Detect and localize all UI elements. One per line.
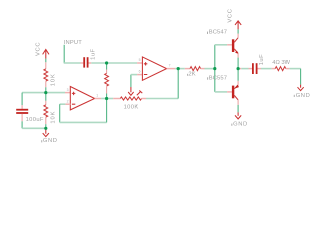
wire R1 to divider node <box>45 87 47 92</box>
node opamp2 output junction <box>177 67 180 70</box>
resistor R2 value 10K <box>50 111 56 124</box>
wire down to GND right <box>300 69 302 85</box>
ground GND right <box>298 85 304 91</box>
svg-text:INPUT: INPUT <box>64 40 82 46</box>
op-amp U1B gain stage <box>142 57 166 80</box>
VCC left arrow <box>43 50 49 59</box>
svg-text:GND: GND <box>233 122 248 128</box>
svg-text:BC547: BC547 <box>209 30 227 36</box>
node opamp1 output junction <box>105 97 108 100</box>
resistor R6 load <box>275 67 286 71</box>
wire bottom rail <box>22 127 46 129</box>
capacitor C3 plates 100uF <box>16 109 28 111</box>
transistor Q1 BC547 <box>206 32 209 34</box>
power VCC left symbol <box>35 42 41 56</box>
wire output node to C2 <box>238 68 241 70</box>
node bias divider junction <box>44 91 47 94</box>
capacitor C1 value 1uF <box>90 48 96 60</box>
svg-text:10K: 10K <box>50 73 56 86</box>
node output junction <box>237 67 240 70</box>
power VCC right symbol <box>227 8 233 22</box>
transistor Q2 BC557 <box>206 77 209 79</box>
wire to Q2 base <box>214 69 216 92</box>
wire Q1 emitter down to output node <box>237 53 239 57</box>
svg-text:10K: 10K <box>50 111 56 124</box>
wire feedback vertical to opamp2 out <box>177 69 179 99</box>
resistor R2 10K <box>45 93 47 101</box>
capacitor C2 value 1uF <box>259 54 265 66</box>
svg-text:6: 6 <box>139 69 141 73</box>
svg-text:GND: GND <box>43 138 58 144</box>
potentiometer R5 adjust mark <box>137 91 143 96</box>
svg-text:100uF: 100uF <box>26 117 44 123</box>
svg-text:BC557: BC557 <box>209 75 227 81</box>
wire opamp2 output <box>167 68 176 70</box>
wire C1 to opamp2 + input <box>91 62 137 64</box>
svg-text:5: 5 <box>139 58 141 62</box>
resistor R3 vertical bias feed <box>106 63 108 70</box>
resistor R1 value 10K <box>50 73 56 86</box>
transistor Q2 emitter arrow (PNP) <box>235 85 239 89</box>
resistor R4 2K <box>190 67 201 71</box>
wire Q2 emitter up to output node <box>237 81 239 85</box>
wire INPUT to C1 <box>64 62 81 64</box>
wire Q1 collector to VCC <box>237 34 239 38</box>
potentiometer R5 100K body <box>120 97 141 100</box>
svg-text:1uF: 1uF <box>90 48 96 60</box>
wire opamp1 - input feedback loop <box>65 103 70 105</box>
wire wiper to opamp2 - <box>130 75 132 87</box>
capacitor C1 lead left <box>81 62 84 64</box>
ground GND middle <box>235 112 241 119</box>
wire opamp1 out to pot <box>107 98 114 100</box>
ground GND left <box>43 129 49 136</box>
node driver junction <box>213 67 216 70</box>
svg-text:4Ω 3W: 4Ω 3W <box>272 60 290 66</box>
svg-text:VCC: VCC <box>35 42 41 56</box>
svg-text:2: 2 <box>67 99 69 103</box>
svg-text:1uF: 1uF <box>259 54 265 66</box>
wire Q2 collector to GND <box>237 100 239 105</box>
potentiometer R5 wiper arrow <box>128 87 133 95</box>
capacitor C1 plates <box>83 57 85 67</box>
wire pot right lead <box>142 98 147 100</box>
wire VCC to R1 <box>45 59 47 63</box>
svg-text:2K: 2K <box>188 72 195 78</box>
wire opamp2 out to R4 <box>178 68 185 70</box>
svg-text:3: 3 <box>67 88 69 92</box>
op-amp U1A buffer <box>70 87 94 110</box>
node ground rail junction <box>44 127 47 130</box>
wire to Q1 base <box>214 45 216 69</box>
capacitor C1 lead right <box>89 62 92 64</box>
wire left leg down to C3 <box>21 93 23 106</box>
capacitor C3 lower lead <box>21 114 23 121</box>
pin lead opamp2 + <box>137 62 142 64</box>
wire INPUT stub vertical <box>63 45 65 63</box>
svg-text:GND: GND <box>296 93 311 99</box>
svg-text:7: 7 <box>169 63 171 67</box>
svg-text:VCC: VCC <box>227 8 233 22</box>
capacitor C2 plates <box>252 63 254 74</box>
wire opamp1 output <box>95 98 102 100</box>
wire C2 to load <box>258 68 262 70</box>
svg-text:1: 1 <box>96 94 98 98</box>
resistor R4 value 2K <box>186 74 189 76</box>
resistor R1 10K <box>45 62 47 69</box>
wire divider node to opamp1 + <box>22 92 65 94</box>
transistor Q1 emitter arrow <box>235 51 238 54</box>
node input bias junction <box>105 61 108 64</box>
